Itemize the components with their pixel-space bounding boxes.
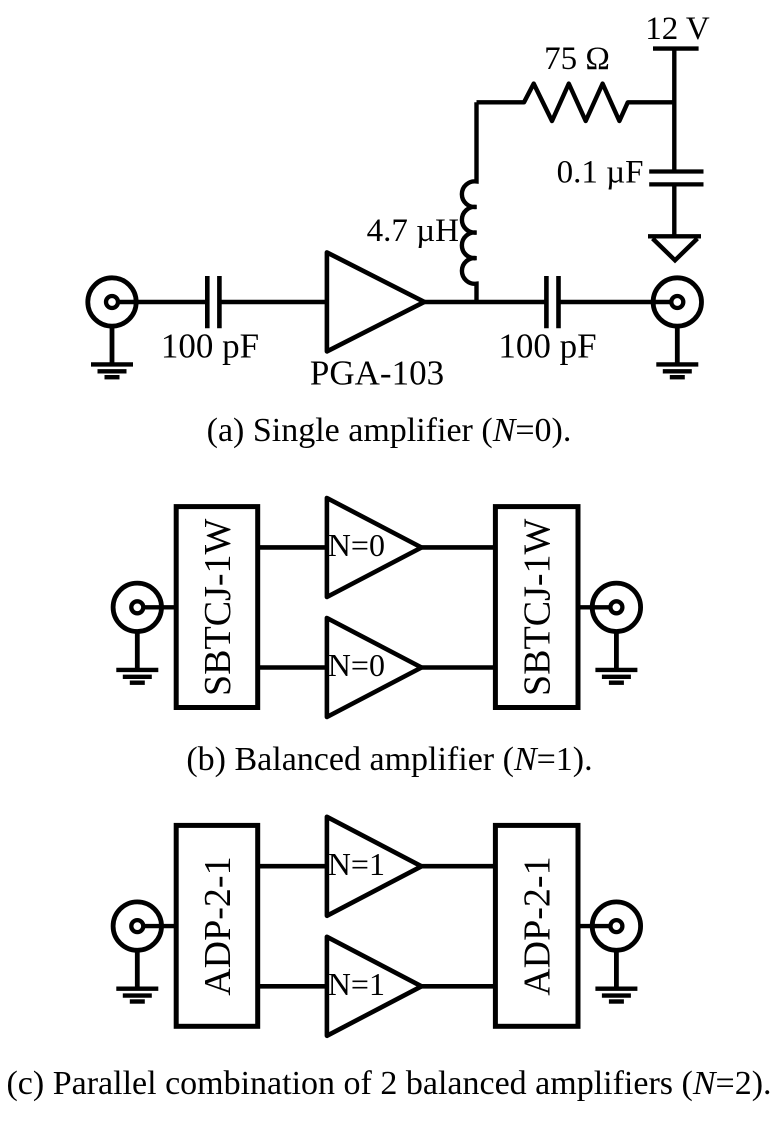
ground output BNC (c) xyxy=(595,950,637,1001)
capacitor C1 100pF xyxy=(207,276,219,328)
svg-text:(b) Balanced amplifier (N=1).: (b) Balanced amplifier (N=1). xyxy=(186,741,592,778)
svg-text:ADP-2-1: ADP-2-1 xyxy=(517,856,559,995)
wire splitter to top amp (b) xyxy=(258,545,328,550)
ground output BNC xyxy=(656,326,698,377)
resistor R 75ohm with wires xyxy=(477,84,675,121)
combiner hybrid ADP-2-1 right xyxy=(495,825,578,1026)
connector BNC output center pin (b) xyxy=(610,601,622,613)
capacitor C2 100pF xyxy=(546,276,558,328)
connector BNC output (b) xyxy=(592,583,640,631)
wire splitter to top amp (c) xyxy=(258,864,328,869)
svg-text:N=0: N=0 xyxy=(328,527,385,563)
svg-text:N=1: N=1 xyxy=(328,846,385,882)
svg-text:ADP-2-1: ADP-2-1 xyxy=(197,856,239,995)
connector BNC output (c) xyxy=(592,902,640,950)
splitter hybrid ADP-2-1 left xyxy=(176,825,258,1026)
wire C1 to amplifier xyxy=(219,300,328,304)
svg-text:SBTCJ-1W: SBTCJ-1W xyxy=(517,519,559,696)
connector BNC input (b) xyxy=(113,583,161,631)
ground input BNC (c) xyxy=(116,950,158,1001)
capacitor bypass 0.1uF xyxy=(649,172,703,185)
connector BNC output center pin xyxy=(671,296,683,308)
wire 12V vertical upper xyxy=(672,49,676,170)
power rail bar 12V xyxy=(653,46,699,50)
inductor L 4.7uH with vertical wires xyxy=(462,102,477,302)
wire splitter to bottom amp (b) xyxy=(258,665,328,670)
svg-text:SBTCJ-1W: SBTCJ-1W xyxy=(197,519,239,696)
wire bottom amp to combiner (c) xyxy=(422,984,496,989)
wire top amp to combiner (c) xyxy=(422,864,496,869)
connector BNC input (c) xyxy=(113,902,161,950)
wire BNC to splitter (c) xyxy=(137,924,176,928)
svg-text:N=1: N=1 xyxy=(328,966,385,1002)
svg-text:100 pF: 100 pF xyxy=(161,327,259,366)
connector BNC input center pin (b) xyxy=(131,601,143,613)
svg-text:0.1 µF: 0.1 µF xyxy=(557,155,644,191)
svg-text:(c) Parallel combination of 2: (c) Parallel combination of 2 balanced a… xyxy=(6,1065,771,1102)
amplifier N=1 bottom (c) xyxy=(327,937,422,1036)
svg-text:12 V: 12 V xyxy=(645,11,710,47)
amplifier N=0 bottom (b) xyxy=(327,618,422,717)
svg-text:100 pF: 100 pF xyxy=(498,327,596,366)
wire bottom amp to combiner (b) xyxy=(422,665,496,670)
wire C2 to output BNC xyxy=(559,300,678,304)
svg-text:75 Ω: 75 Ω xyxy=(544,41,610,77)
combiner hybrid SBTCJ-1W right xyxy=(495,507,578,708)
wire top amp to combiner (b) xyxy=(422,545,496,550)
wire input BNC to C1 xyxy=(112,300,207,304)
ground input BNC xyxy=(91,326,133,377)
ground input BNC (b) xyxy=(116,632,158,683)
amplifier N=0 top (b) xyxy=(327,498,422,597)
svg-text:4.7 µH: 4.7 µH xyxy=(367,213,459,249)
wire combiner to BNC (b) xyxy=(578,605,616,609)
amplifier N=1 top (c) xyxy=(327,817,422,916)
wire 12V vertical lower xyxy=(672,186,676,236)
wire amplifier to C2 xyxy=(424,300,546,304)
splitter hybrid SBTCJ-1W left xyxy=(176,507,258,708)
svg-text:N=0: N=0 xyxy=(328,647,385,683)
ground chassis symbol xyxy=(648,236,701,260)
connector BNC input center pin xyxy=(106,296,118,308)
connector BNC output center pin (c) xyxy=(610,920,622,932)
op-amp A1 PGA-103 xyxy=(327,252,424,351)
svg-text:(a) Single amplifier (N=0).: (a) Single amplifier (N=0). xyxy=(207,412,572,449)
wire splitter to bottom amp (c) xyxy=(258,984,328,989)
connector BNC input center pin (c) xyxy=(131,920,143,932)
wire combiner to BNC (c) xyxy=(578,924,616,928)
ground output BNC (b) xyxy=(595,632,637,683)
wire BNC to splitter (b) xyxy=(137,605,176,609)
connector BNC input J1 xyxy=(88,278,136,326)
svg-text:PGA-103: PGA-103 xyxy=(310,353,444,392)
connector BNC output J2 xyxy=(653,278,701,326)
